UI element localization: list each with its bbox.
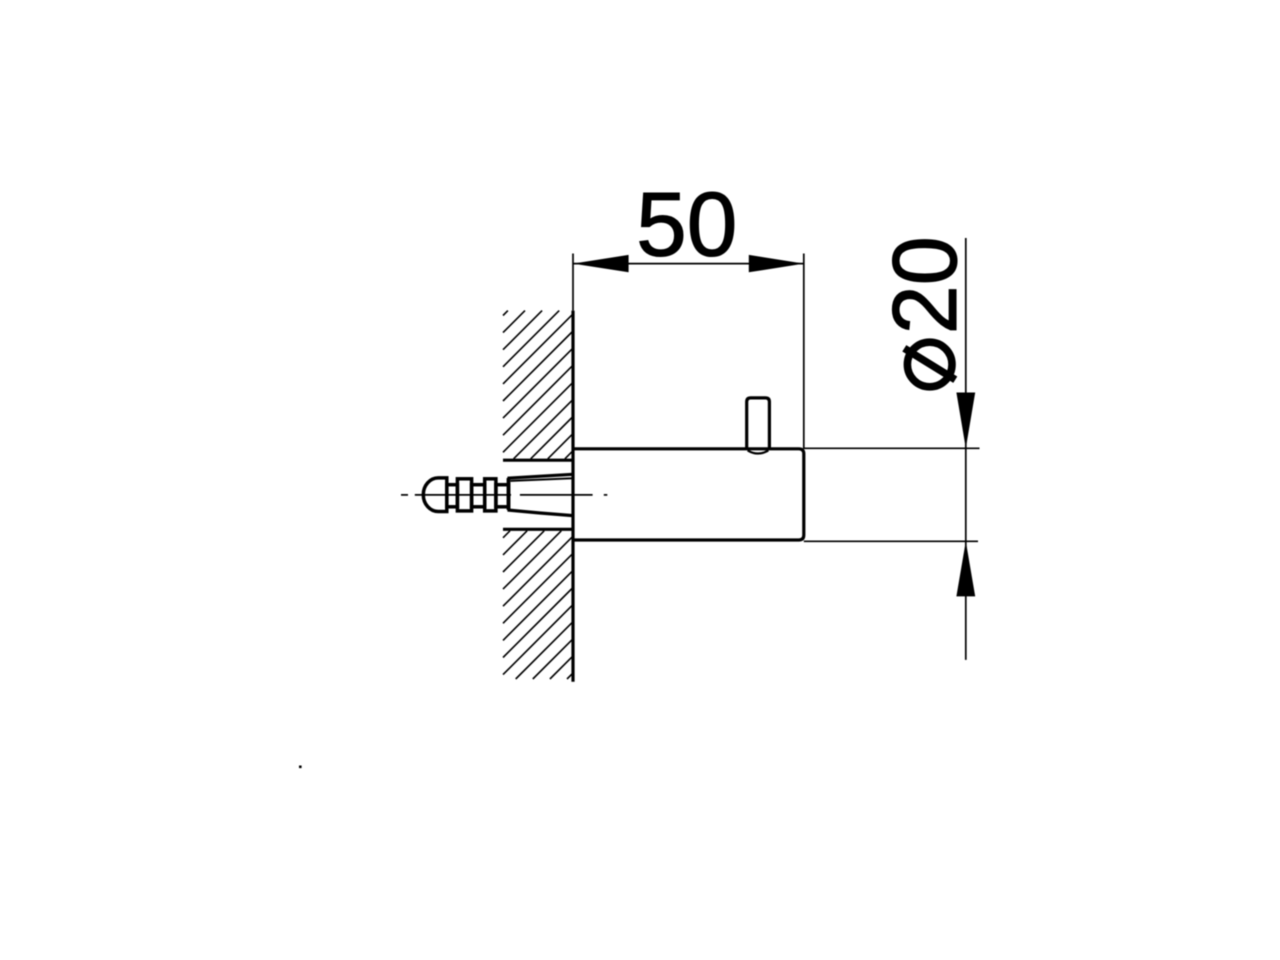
stray dot mark [299, 766, 302, 769]
svg-text:20: 20 [875, 236, 976, 334]
svg-text:50: 50 [636, 174, 737, 275]
dimension D20: bottom extension line [804, 540, 978, 542]
wall face line [571, 311, 574, 682]
dimension D20: top extension line [804, 447, 980, 449]
anchor neck 1 [447, 485, 458, 507]
dimension D20: lower arrowhead [956, 541, 975, 596]
anchor expansion sleeve [508, 474, 574, 515]
dimension D20: upper arrowhead [956, 393, 975, 449]
anchor neck 2 [472, 485, 485, 507]
dimension D20: diameter symbol circle [907, 342, 952, 387]
centerline (screw axis) [401, 494, 607, 496]
anchor rib 1 [457, 479, 471, 511]
dimension D20: diameter symbol slash [904, 348, 955, 379]
anchor neck 3 [496, 485, 509, 507]
dimension 50: right extension line [803, 254, 805, 449]
dimension 50: right arrowhead [749, 255, 804, 272]
mounting peg [747, 398, 770, 449]
wall hatching [503, 311, 573, 679]
dimension 50: left extension line [572, 254, 574, 311]
dimension 50: value label [636, 174, 737, 275]
anchor rib 2 [485, 479, 496, 511]
dimension D20: value label "20" [875, 236, 976, 334]
wall hole top line [503, 459, 573, 462]
hook body [573, 449, 804, 540]
anchor dome head [423, 478, 447, 512]
wall hole bottom line [503, 528, 573, 531]
dimension 50: dimension line [573, 263, 804, 265]
dimension D20: dimension line [965, 238, 967, 660]
dimension 50: left arrowhead [573, 255, 629, 272]
peg fillet arc [748, 450, 769, 453]
